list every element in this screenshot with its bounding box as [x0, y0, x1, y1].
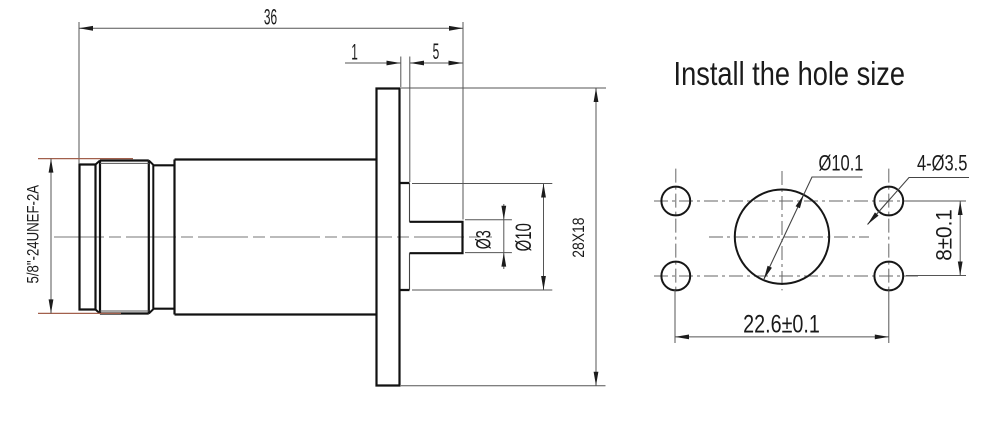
svg-text:1: 1 — [351, 39, 358, 64]
svg-text:5/8"-24UNEF-2A: 5/8"-24UNEF-2A — [24, 185, 43, 284]
dim 22.6 extension left — [674, 290, 676, 343]
central hole circle — [735, 190, 829, 284]
dim diameter 10 arrow bottom — [541, 276, 546, 290]
rear boss top edge — [400, 183, 410, 290]
leader 4-diameter 3.5 line — [868, 178, 970, 225]
nut chamfer left — [96, 161, 101, 314]
dim diameter 3 extension top — [465, 219, 512, 221]
mounting hole bottom-left — [661, 262, 690, 291]
nut chamfer right — [149, 161, 154, 314]
thread crest line bottom — [100, 310, 149, 312]
rear boss right face — [409, 183, 411, 290]
hole pattern centerline vertical middle — [781, 171, 783, 290]
thread crest line top — [100, 162, 149, 164]
dim 1 arrow — [387, 61, 401, 66]
dim 28X18 extension bottom — [401, 385, 606, 387]
dim diameter 10 line — [543, 184, 545, 291]
dim diameter 3 arrow top — [501, 206, 506, 220]
dim 22.6 extension right — [888, 290, 890, 343]
connector front cap — [80, 165, 96, 310]
hole pattern centerline horizontal lower — [654, 275, 922, 277]
svg-text:22.6±0.1: 22.6±0.1 — [743, 310, 820, 338]
dim 36 arrow left — [79, 26, 93, 31]
svg-text:8±0.1: 8±0.1 — [931, 209, 957, 261]
dim 28X18 extension top — [401, 87, 606, 89]
svg-text:4-Ø3.5: 4-Ø3.5 — [917, 151, 967, 176]
thread dim line — [50, 159, 52, 314]
dim 36 arrow right — [449, 26, 463, 31]
dim 36 extension line left — [78, 22, 80, 164]
svg-text:Install the hole size: Install the hole size — [674, 57, 906, 93]
svg-text:28X18: 28X18 — [570, 217, 589, 257]
dim 8 arrow bottom — [958, 262, 963, 276]
centerline of connector axis — [54, 236, 492, 238]
dim 8 extension top — [906, 200, 966, 202]
main cylindrical body — [175, 160, 377, 315]
dim 1 extension line a — [400, 57, 402, 88]
mounting hole top-left — [661, 187, 690, 216]
dim 1 line — [345, 62, 401, 64]
dim 8 extension bottom — [906, 275, 966, 277]
hole pattern centerline vertical left — [675, 169, 677, 293]
dim diameter 3 extension bottom — [465, 252, 512, 254]
svg-text:Ø10.1: Ø10.1 — [819, 151, 864, 176]
dim 36 line — [79, 27, 463, 29]
hole pattern centerline horizontal middle — [709, 236, 869, 238]
svg-text:Ø3: Ø3 — [472, 230, 495, 249]
dim 8 line — [959, 201, 961, 276]
leader 4-diameter 3.5 arrow — [866, 212, 879, 226]
dim 22.6 arrow right — [875, 335, 889, 340]
coupling nut body — [100, 161, 149, 314]
dim 5 arrow left — [410, 61, 424, 66]
center pin — [410, 222, 463, 253]
dim 1 extension line b — [409, 57, 411, 183]
dim 8 arrow top — [958, 201, 963, 215]
hole pattern centerline horizontal upper — [654, 200, 922, 202]
dim 28X18 arrow top — [594, 88, 599, 102]
dim diameter 3 line — [503, 204, 505, 269]
thread dim extension line bottom — [38, 312, 121, 314]
dim 22.6 arrow left — [675, 335, 689, 340]
leader diameter 10.1 line — [764, 177, 863, 280]
dim diameter 10 arrow top — [541, 184, 546, 198]
collar groove — [153, 165, 174, 308]
dim 36 extension line right — [462, 22, 464, 220]
dim diameter 10 extension bottom — [412, 289, 552, 291]
dim 22.6 line — [675, 336, 889, 338]
leader diameter 10.1 arrow lower — [762, 266, 772, 281]
svg-text:5: 5 — [433, 39, 440, 64]
mounting hole bottom-right — [874, 262, 903, 291]
thread dim arrow top — [49, 159, 54, 173]
dim diameter 10 extension top — [412, 183, 552, 185]
mounting flange — [377, 89, 400, 386]
svg-text:Ø10: Ø10 — [511, 223, 536, 251]
dim diameter 3 arrow bottom — [501, 253, 506, 267]
thread dim arrow bottom — [49, 299, 54, 313]
hole pattern centerline vertical right — [888, 169, 890, 293]
dim 5 arrow right — [449, 61, 463, 66]
dim 5 line — [410, 62, 463, 64]
svg-text:36: 36 — [264, 5, 277, 30]
dim 28X18 line — [595, 88, 597, 386]
dim 28X18 arrow bottom — [594, 372, 599, 386]
mounting hole top-right — [874, 187, 903, 216]
thread dim extension line top — [38, 158, 133, 160]
leader diameter 10.1 arrow upper — [796, 194, 806, 209]
